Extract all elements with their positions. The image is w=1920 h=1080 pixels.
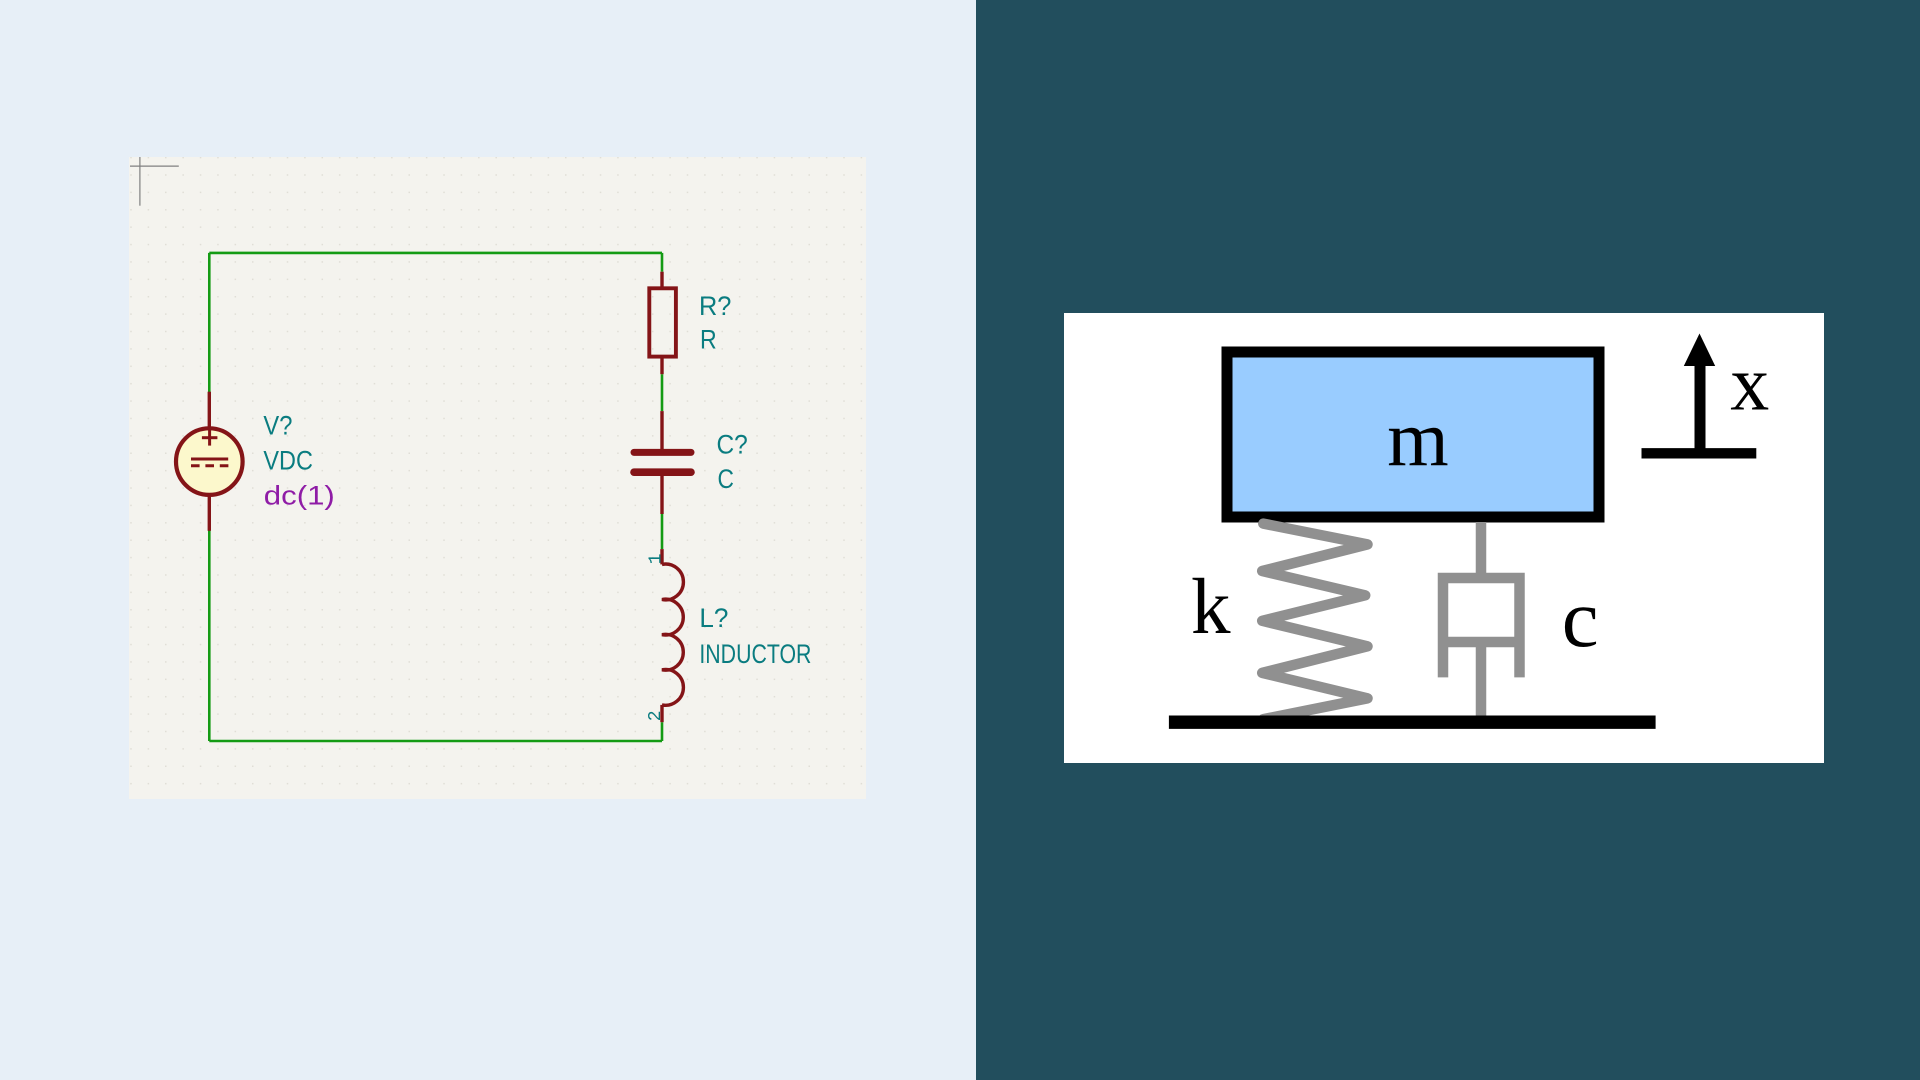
wire: top horizontal from V source to resistor — [209, 252, 662, 255]
voltage source V? body circle — [176, 428, 243, 495]
damper rod lower — [1476, 642, 1487, 722]
svg-text:C?: C? — [717, 430, 748, 460]
voltage source V? pin + (top) — [208, 392, 211, 427]
svg-text:C: C — [718, 464, 734, 494]
svg-text:2: 2 — [646, 710, 666, 721]
displacement arrow head — [1684, 334, 1715, 367]
wire: segment resistor top — [661, 253, 664, 272]
svg-text:1: 1 — [646, 553, 666, 564]
svg-text:VDC: VDC — [263, 446, 313, 476]
svg-text:dc(1): dc(1) — [264, 480, 335, 510]
wire: segment inductor to bottom — [661, 722, 664, 741]
svg-text:R: R — [700, 325, 717, 355]
wire: left vertical upper segment — [208, 253, 211, 392]
voltage source battery solid bar — [191, 458, 228, 461]
inductor L? pin 1 (top) — [660, 549, 663, 564]
wire: segment capacitor to inductor — [661, 514, 664, 549]
resistor R? pin 1 (top) — [660, 272, 663, 288]
svg-text:x: x — [1730, 339, 1769, 426]
svg-text:INDUCTOR: INDUCTOR — [699, 639, 811, 669]
svg-text:c: c — [1562, 572, 1599, 664]
sheet origin crosshair — [130, 157, 179, 206]
capacitor C? bottom plate — [634, 468, 691, 476]
voltage source V? pin - (bottom) — [208, 497, 211, 531]
svg-text:V?: V? — [263, 411, 292, 441]
capacitor C? top plate — [634, 449, 691, 456]
voltage source plus sign — [202, 430, 218, 446]
svg-text:k: k — [1191, 564, 1231, 651]
damper piston plate — [1447, 637, 1516, 648]
wire: bottom horizontal from V source to inductor — [209, 740, 662, 743]
inductor L? coil arcs — [662, 564, 683, 705]
wire: left vertical lower segment — [208, 531, 211, 742]
wire: segment resistor to capacitor — [661, 374, 664, 411]
svg-text:L?: L? — [699, 603, 728, 633]
damper cylinder cup — [1443, 578, 1520, 677]
voltage source battery dashed bar — [191, 464, 229, 467]
displacement arrow base bar — [1642, 448, 1757, 458]
ground line — [1169, 716, 1656, 729]
svg-text:R?: R? — [699, 291, 731, 321]
mass block m — [1227, 352, 1599, 517]
displacement arrow x shaft — [1695, 363, 1706, 453]
inductor L? pin 2 (bottom) — [660, 705, 663, 722]
capacitor C? pin 2 (bottom) — [660, 476, 663, 514]
svg-text:m: m — [1387, 396, 1448, 483]
resistor R? pin 2 (bottom) — [660, 357, 663, 374]
damper rod upper — [1476, 522, 1487, 578]
spring k zigzag — [1262, 524, 1367, 720]
resistor R? body — [649, 288, 676, 356]
capacitor C? pin 1 (top) — [660, 411, 663, 449]
